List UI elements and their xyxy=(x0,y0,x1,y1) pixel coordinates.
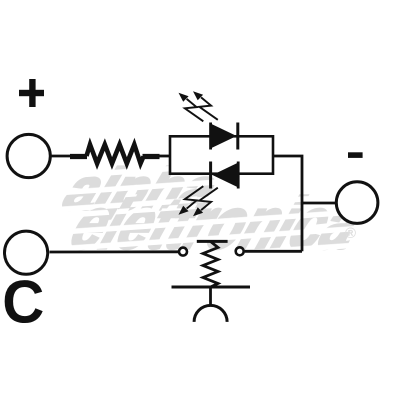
wire xyxy=(50,155,71,158)
terminal circle C xyxy=(5,231,48,274)
actuator stem xyxy=(209,287,212,307)
optocoupler box U1 xyxy=(170,136,273,173)
actuator bar xyxy=(172,286,251,289)
terminal circle positive input xyxy=(7,134,50,177)
contact node left (small circle) xyxy=(179,248,187,256)
wire from box to minus terminal node xyxy=(273,156,302,251)
wire from C terminal xyxy=(50,250,179,253)
light emission arrows top xyxy=(179,93,204,122)
terminal circle negative xyxy=(336,182,378,224)
svg-text:C: C xyxy=(2,268,44,336)
spring (vertical zigzag) xyxy=(203,241,218,287)
contact node right (small circle) xyxy=(236,247,244,255)
minus label - xyxy=(348,152,363,158)
svg-text:®: ® xyxy=(345,225,356,242)
resistor R1 xyxy=(70,145,170,164)
LED D2 (bottom, pointing left) xyxy=(211,162,240,189)
switch bridge bar xyxy=(197,240,228,243)
light emission arrows bottom xyxy=(179,186,204,215)
plus label + xyxy=(19,79,44,107)
wire branch to minus terminal xyxy=(302,202,335,205)
wire bottom right xyxy=(245,250,302,253)
watermark "alpha" line 1 xyxy=(56,156,227,221)
LED D1 (top, pointing right) xyxy=(209,123,237,150)
watermark "elettronica" line 2 xyxy=(61,183,374,264)
actuator dome xyxy=(194,305,227,322)
